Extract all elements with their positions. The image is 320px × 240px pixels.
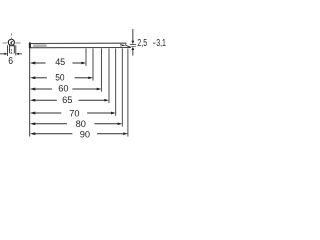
end view body bottom edge — [10, 52, 15, 54]
dimension 65: right arrow — [104, 99, 109, 102]
right extension line 65 — [108, 48, 110, 103]
split pin loop end view: circle — [8, 39, 14, 45]
svg-text:45: 45 — [55, 57, 65, 68]
dimension 90: right arrow — [123, 132, 128, 135]
diameter dim upper vertical line — [132, 29, 134, 41]
dimension 80: left arrow — [30, 122, 35, 125]
dimension 65: right line segment — [79, 99, 106, 101]
dimension 45: left line segment — [34, 62, 46, 64]
svg-text:65: 65 — [62, 95, 72, 106]
pin body top edge — [31, 42, 126, 44]
dimension 80: right line segment — [94, 123, 119, 125]
dimension 90: left line segment — [34, 133, 72, 135]
right extension line 70 — [115, 48, 117, 115]
svg-text:3,1: 3,1 — [156, 38, 166, 49]
diameter dim down arrow — [131, 41, 134, 44]
dimension 50: right arrow — [88, 76, 93, 79]
dimension 70: right arrow — [111, 112, 116, 115]
dimension 70: left line segment — [34, 112, 61, 114]
dimension 50: right line segment — [75, 77, 90, 79]
dimension 90: right line segment — [97, 133, 124, 135]
right extension line 50 — [92, 48, 94, 80]
right extension line 80 — [121, 48, 123, 126]
svg-text:2,5: 2,5 — [137, 38, 147, 49]
svg-text:90: 90 — [80, 130, 90, 141]
pin body bottom edge — [31, 47, 131, 49]
pin head (loop side view) — [29, 42, 31, 49]
svg-text:80: 80 — [76, 119, 86, 130]
pin tip dark point — [120, 44, 126, 46]
pin body gray crimp zone — [33, 44, 46, 47]
svg-text:50: 50 — [55, 73, 64, 84]
pin long leg slant edge — [126, 45, 131, 47]
svg-text:60: 60 — [58, 83, 68, 94]
dimension 45: right line segment — [73, 62, 83, 64]
dim 6 left extension line — [7, 45, 9, 56]
diameter dim lower tick — [131, 46, 136, 48]
dimension 60: right line segment — [72, 88, 98, 90]
dimension 60: left line segment — [34, 88, 52, 90]
dimension 45: left arrow — [30, 62, 35, 65]
end view body right side — [13, 45, 15, 53]
dimension 60: left arrow — [30, 88, 35, 91]
dimension 45: right arrow — [81, 62, 86, 65]
dimension 70: right line segment — [87, 112, 112, 114]
dim 6 right line with arrow — [16, 53, 19, 55]
dimension 70: left arrow — [30, 112, 35, 115]
left extension line for length dims — [29, 49, 31, 137]
svg-text:6: 6 — [8, 56, 13, 67]
dimension 90: left arrow — [30, 132, 35, 135]
diameter dim upper tick — [130, 43, 136, 45]
pin top leg end cut — [125, 43, 128, 45]
vertical centerline dashes — [11, 33, 13, 35]
dim 6 left line with arrow — [0, 53, 5, 55]
right extension line 60 — [100, 48, 102, 91]
dimension 80: left line segment — [34, 123, 67, 125]
dimension 65: left line segment — [34, 99, 57, 101]
horizontal centerline dashes — [3, 42, 8, 44]
svg-text:70: 70 — [69, 108, 79, 119]
dimension 60: right arrow — [97, 88, 102, 91]
dimension 50: left line segment — [34, 77, 47, 79]
diameter dim lower vertical line — [132, 50, 134, 56]
dim 6 right extension line — [15, 45, 17, 55]
diameter dim up arrow — [131, 47, 134, 50]
end view body left side — [9, 45, 11, 53]
dimension 50: left arrow — [30, 76, 35, 79]
split pin loop inner wire curl — [11, 42, 13, 45]
dimension 80: right arrow — [118, 122, 123, 125]
right extension line 45 — [85, 48, 87, 65]
end view body dark bend zone — [9, 45, 14, 47]
dimension 65: left arrow — [30, 99, 35, 102]
right extension line 90 — [127, 48, 129, 136]
